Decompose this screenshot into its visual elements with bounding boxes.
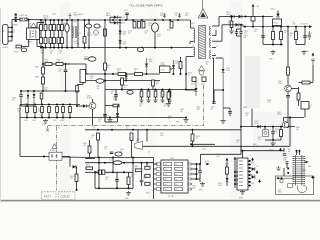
svg-text:R801: R801 (86, 165, 90, 167)
wire standby bottom (20, 117, 80, 119)
wire cap down (229, 113, 231, 116)
svg-text:R660: R660 (243, 107, 247, 109)
svg-text:EI33: EI33 (185, 15, 188, 17)
junction (128, 187, 130, 189)
svg-text:C629: C629 (61, 120, 65, 122)
P801 rpin box 4 (188, 178, 191, 180)
wire C801 down (116, 181, 118, 188)
junction (177, 19, 179, 21)
resistor R803 (136, 169, 142, 172)
svg-text:diac: diac (206, 64, 209, 66)
resistor R618 (104, 63, 107, 70)
diode D607 BA159 (114, 16, 117, 19)
svg-text:R608: R608 (79, 14, 83, 16)
svg-text:2.2: 2.2 (77, 35, 79, 37)
resistor R621 (179, 62, 182, 69)
wire T601 sec pin10 (212, 47, 216, 49)
svg-text:220: 220 (83, 145, 86, 147)
junction (26, 117, 28, 119)
wire N802 pin y175 (248, 174, 251, 176)
junction (281, 177, 283, 179)
wire bottom row (95, 187, 133, 189)
resistor R617 (135, 73, 143, 76)
junction (146, 129, 148, 131)
arrow N802 5V (251, 157, 254, 161)
wire N802 left feed (234, 168, 236, 188)
svg-text:100: 100 (161, 96, 164, 98)
wire C bank stub x57 (56, 113, 58, 118)
svg-text:Q601: Q601 (161, 63, 165, 65)
ground fb (271, 142, 276, 146)
resistor R625 (75, 174, 78, 182)
resistor R804 (226, 167, 229, 174)
junction (146, 162, 148, 164)
svg-text:C802: C802 (143, 176, 147, 178)
capacitor C613 (137, 47, 143, 51)
P801 cell R2 (175, 167, 183, 170)
capacitor C617 (96, 79, 104, 83)
ground secondary 2 (302, 50, 307, 54)
wire sense arrow stub (252, 13, 254, 17)
wire N802 pin y178.5 (248, 178, 251, 180)
P801 cell L6 (164, 187, 172, 190)
junction (104, 162, 106, 164)
junction (84, 47, 86, 49)
arrow N802 c (258, 179, 261, 183)
svg-text:1K: 1K (168, 118, 170, 120)
junction (154, 19, 156, 21)
resistor R615 (40, 93, 43, 99)
svg-text:141: 141 (175, 174, 178, 176)
wire col x147 (146, 130, 148, 142)
arrow aux1 (226, 158, 229, 162)
svg-text:R616: R616 (117, 69, 121, 71)
svg-text:R661: R661 (253, 144, 257, 146)
svg-text:1: 1 (187, 26, 188, 28)
dashed box COLD (59, 192, 76, 200)
svg-text:4148: 4148 (197, 109, 201, 111)
svg-text:R674: R674 (196, 136, 200, 138)
wire P801 lpin 3 (154, 173, 157, 175)
capacitor C636 (94, 24, 100, 28)
svg-text:R630: R630 (168, 116, 172, 118)
P801 cell R1 (175, 162, 183, 165)
junction (125, 80, 127, 82)
junction (169, 19, 171, 21)
junction (169, 89, 171, 91)
junction (264, 126, 266, 128)
svg-text:+B: +B (292, 22, 294, 24)
wire R673 up (89, 140, 91, 146)
wire P801 out2 (192, 168, 197, 170)
wire primary bottom rail left (41, 47, 78, 49)
svg-text:C604: C604 (59, 51, 63, 53)
svg-text:472: 472 (29, 26, 32, 28)
wire T601 sec pin8 (212, 35, 216, 37)
svg-text:222: 222 (211, 109, 214, 111)
wire gnd bus right (263, 44, 283, 46)
junction (262, 16, 264, 18)
wire C631 down (155, 97, 157, 99)
svg-text:P505: P505 (251, 183, 255, 185)
svg-text:817: 817 (258, 139, 261, 141)
wire R655 to Q651 (287, 75, 289, 85)
junction (242, 150, 244, 152)
svg-text:R614: R614 (24, 104, 28, 106)
wire T601 pin3 stub (189, 42, 191, 44)
svg-text:141: 141 (175, 189, 178, 191)
svg-text:Z5.6: Z5.6 (44, 90, 47, 92)
wire C630 up (115, 89, 117, 94)
svg-text:801: 801 (288, 151, 291, 153)
wire C618 down (20, 96, 22, 106)
svg-text:68u: 68u (63, 25, 66, 27)
capacitor C624 (228, 112, 232, 114)
wire XS601 pin 1 (8, 27, 12, 29)
wire IC651 out (276, 25, 278, 26)
svg-text:C671: C671 (160, 133, 164, 135)
wire out join (196, 164, 198, 179)
zener ZD601 above rail (69, 13, 72, 19)
diode D601 (40, 25, 43, 31)
svg-text:3.3: 3.3 (126, 128, 128, 130)
wire service loop arc (297, 185, 306, 192)
svg-text:102: 102 (50, 53, 53, 55)
wire c652 bot (237, 35, 242, 37)
arrow +16V (252, 4, 255, 8)
wire C610 to bottom rail (154, 32, 156, 48)
junction (280, 26, 282, 28)
wire C615 down (65, 72, 67, 91)
wire snubber col x84 (84, 20, 86, 48)
P801 rpin box 5 (188, 183, 191, 185)
capacitor C606 (142, 22, 145, 29)
wire C604 stem (126, 15, 128, 20)
wire bridge ac in (42, 47, 44, 48)
junction (66, 19, 68, 21)
wire D614 up (117, 108, 119, 113)
resistor R655 (287, 67, 290, 75)
scan streak band 2 (148, 2, 156, 199)
wire D652 to rail tap (262, 17, 264, 27)
svg-text:4148: 4148 (123, 44, 127, 46)
svg-text:XS: XS (288, 149, 290, 151)
wire C659 up (272, 127, 274, 132)
svg-text:R623: R623 (191, 84, 195, 86)
junction (146, 73, 148, 75)
svg-text:4148: 4148 (218, 185, 222, 187)
chassis symbol (46, 126, 49, 132)
wire R621 down (180, 69, 182, 75)
wire bridge column x45.5 (45, 20, 47, 48)
svg-text:5V: 5V (148, 152, 150, 154)
svg-text:C641: C641 (98, 119, 102, 121)
junction (148, 89, 150, 91)
wire fb top link (284, 117, 305, 119)
svg-text:R802: R802 (131, 175, 135, 177)
junction (287, 26, 289, 28)
wire C bank stub x27 (26, 113, 28, 118)
junction (222, 89, 224, 91)
junction (76, 189, 78, 191)
svg-text:4007: 4007 (41, 53, 45, 55)
svg-text:C612: C612 (175, 13, 179, 15)
junction (123, 171, 125, 173)
junction (69, 117, 71, 119)
wire opto to bus (62, 156, 95, 159)
svg-text:R671: R671 (92, 135, 96, 137)
svg-text:T601: T601 (185, 13, 189, 15)
junction (62, 117, 64, 119)
ground N802 (240, 190, 245, 194)
resistor R673 (88, 146, 91, 153)
junction (42, 63, 44, 65)
sensor box RS1 (192, 77, 196, 82)
svg-text:TCL-2518E PWR SMPS: TCL-2518E PWR SMPS (129, 3, 163, 7)
wire col R652 (280, 27, 282, 45)
wire gnd stub (109, 117, 111, 120)
svg-text:R652: R652 (284, 31, 288, 33)
wire R662 up (231, 17, 233, 22)
wire opto out (62, 156, 70, 158)
wire P801 rpin 2 (191, 168, 192, 170)
wire D653 stub (277, 11, 279, 14)
junction (289, 117, 291, 119)
wire R673 down (89, 153, 91, 159)
ground R662 (229, 30, 234, 34)
svg-text:471: 471 (105, 179, 108, 181)
svg-text:C673: C673 (120, 149, 124, 151)
junction (42, 47, 44, 49)
node U601 vcc (85, 73, 87, 75)
capacitor C605 (133, 22, 136, 29)
arrow Vsense (312, 53, 315, 57)
wire R615 down (41, 99, 43, 104)
junction (277, 177, 279, 179)
junction (172, 73, 174, 75)
wire D652-D654 (234, 16, 238, 18)
wire T601 sec pin12 (212, 57, 214, 59)
P801 cell L2 (164, 167, 172, 170)
svg-text:L801: L801 (109, 158, 113, 160)
svg-text:D607: D607 (106, 13, 110, 15)
component box L803 (288, 184, 293, 188)
diode D619 vertical (172, 60, 175, 74)
capacitor C673 (115, 152, 122, 156)
pin dot N802 (249, 178, 251, 180)
junction (185, 73, 187, 75)
junction (234, 171, 236, 173)
transformer T601 right winding (210, 26, 211, 59)
resistor R622 (167, 92, 170, 99)
ground C620 (146, 99, 150, 103)
capacitor C652a (235, 32, 238, 34)
svg-text:C672: C672 (104, 147, 108, 149)
svg-text:L671: L671 (136, 139, 140, 141)
wire R603 out (63, 63, 70, 65)
wire link to +B5V node (201, 153, 242, 155)
transformer symbol L671 trapezoid (135, 142, 143, 150)
junction (61, 47, 63, 49)
ground caps bank (43, 119, 48, 123)
diac circle D616 (199, 70, 204, 75)
wire R672 down (131, 141, 133, 158)
junction (123, 162, 125, 164)
svg-text:104: 104 (308, 35, 311, 37)
svg-text:C627: C627 (39, 115, 43, 117)
wire U601 drive row (86, 73, 160, 75)
wire P801 out1 (192, 163, 200, 165)
wire (117, 106, 119, 109)
sensor box RS2 (202, 77, 206, 82)
svg-text:D601-4: D601-4 (43, 16, 48, 18)
junction (304, 26, 306, 28)
svg-text:C604: C604 (124, 10, 128, 12)
junction (231, 16, 233, 18)
svg-text:C611: C611 (160, 13, 164, 15)
junction (84, 19, 86, 21)
wire to D612 (77, 105, 83, 107)
wire down (69, 157, 71, 167)
junction (34, 104, 36, 106)
junction (112, 73, 114, 75)
capacitor C bank x35 (34, 107, 37, 113)
svg-text:A1015: A1015 (87, 97, 92, 100)
wire inside box row (277, 177, 295, 179)
diode D801 (95, 171, 98, 174)
wire sense up (252, 21, 254, 27)
svg-text:100u: 100u (192, 188, 196, 190)
junction (132, 19, 134, 21)
P801 cell L1 (164, 162, 172, 165)
junction (272, 126, 274, 128)
svg-text:+B1: +B1 (164, 179, 167, 181)
svg-text:1N4007: 1N4007 (43, 18, 49, 20)
junction (132, 162, 134, 164)
capacitor C658 (311, 59, 314, 65)
junction (125, 19, 127, 21)
junction (141, 89, 143, 91)
IC U601 control (80, 70, 86, 83)
junction (48, 104, 50, 106)
junction (66, 47, 68, 49)
wire R803 col (141, 163, 143, 169)
svg-text:R618: R618 (107, 65, 111, 67)
wire fb row right (105, 171, 133, 173)
wire R622 up (168, 90, 170, 93)
wire to fuse (12, 19, 20, 21)
wire sense col up (192, 130, 194, 134)
wire filter tr link (37, 22, 43, 24)
capacitor C803 (198, 171, 202, 173)
transistor Q602 startup (89, 102, 96, 109)
junction (40, 47, 42, 49)
wire P801 rpin 4 (191, 178, 192, 180)
warning triangle W1 (31, 23, 37, 27)
wire out bus mid (85, 162, 113, 164)
transformer T601 core (199, 25, 206, 58)
resistor R801 (86, 167, 93, 170)
svg-text:102: 102 (139, 106, 142, 108)
diode D654 (239, 15, 242, 18)
wire up to sense (312, 65, 314, 83)
wire Q651 base (291, 88, 298, 90)
svg-text:104: 104 (245, 115, 248, 117)
diode D617 vertical (222, 58, 225, 119)
wire snub row (105, 89, 196, 91)
capacitor C619 (140, 91, 143, 97)
optocoupler U651 box (263, 130, 269, 137)
connector XS601 mains input (3, 25, 8, 45)
junction (234, 183, 236, 185)
svg-text:102: 102 (59, 53, 62, 55)
svg-text:10: 10 (86, 167, 88, 169)
svg-text:P501: P501 (251, 163, 255, 165)
pin box P801-b (145, 174, 150, 177)
ground snubber (220, 119, 225, 123)
junction (40, 19, 42, 21)
wire N802 pin y164.5 (248, 164, 251, 166)
svg-text:104: 104 (236, 142, 239, 144)
svg-text:DB3: DB3 (206, 62, 209, 64)
pin dot N802 (249, 164, 251, 166)
capacitor C653 box (251, 17, 255, 22)
resistor R603 (56, 63, 63, 66)
diode D610 vertical (119, 40, 122, 43)
capacitor C bank x70 (69, 107, 72, 113)
svg-text:C628: C628 (53, 120, 57, 122)
wire aux1 down (226, 162, 228, 168)
P801 cell R5 (175, 182, 183, 185)
svg-text:C616: C616 (84, 57, 88, 59)
wire aux2 down (104, 90, 106, 122)
wire C bank stub x63 (62, 113, 64, 118)
junction (53, 19, 55, 21)
svg-text:C603: C603 (50, 51, 54, 53)
resistor R659 (280, 130, 283, 137)
capacitor C bank x49 (48, 107, 51, 113)
svg-text:C626: C626 (32, 120, 36, 122)
junction (272, 26, 274, 28)
diode bridge symbol D606 diamond (93, 30, 99, 36)
capacitor C806 (286, 162, 289, 164)
svg-text:103: 103 (58, 71, 61, 73)
junction (58, 19, 60, 21)
svg-text:D609: D609 (123, 32, 127, 34)
wire primary HT rail (78, 19, 191, 21)
isolation barrier dash-dot vertical hot-cold (56, 127, 58, 191)
wire secondary rail A (85, 129, 241, 131)
junction (33, 90, 35, 92)
svg-text:10u: 10u (97, 88, 100, 90)
svg-text:RL61: RL61 (308, 105, 312, 107)
capacitor C601 (53, 25, 56, 31)
svg-text:C610: C610 (157, 34, 161, 36)
wire 16V riser down (240, 36, 242, 151)
svg-text:+B 115V: +B 115V (300, 23, 308, 25)
svg-text:141: 141 (175, 164, 178, 166)
capacitor C635 (86, 24, 92, 28)
svg-text:9: 9 (216, 43, 217, 45)
wire R802 up (128, 172, 130, 177)
junction (272, 44, 274, 46)
svg-text:C660: C660 (245, 113, 249, 115)
diode D609 vertical (119, 31, 122, 34)
triangle symbol diac (198, 66, 204, 71)
resistor R620 (113, 104, 119, 107)
wire T601 to D617 (216, 57, 223, 59)
junction (26, 104, 28, 106)
